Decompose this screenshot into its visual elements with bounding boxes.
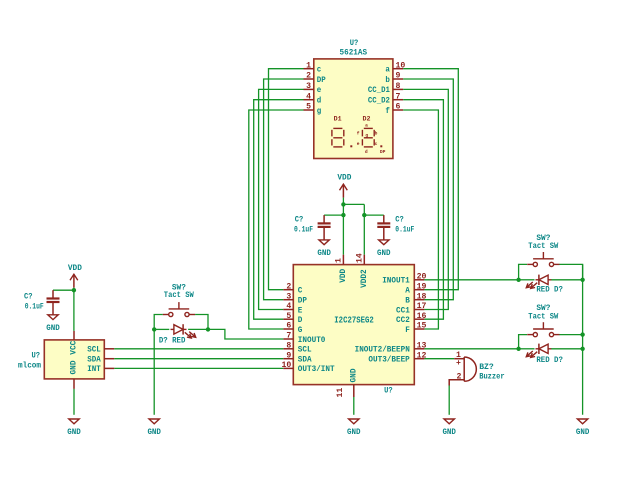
display pin 2 stub	[304, 78, 314, 80]
mlcom pin INT stub	[104, 367, 114, 369]
svg-text:GND: GND	[347, 427, 361, 437]
display pin 1 stub	[304, 68, 314, 70]
svg-text:SCL: SCL	[87, 345, 101, 355]
svg-text:16: 16	[417, 312, 427, 321]
wire SW3 left down	[519, 335, 527, 349]
IC pin 2 stub	[283, 289, 293, 291]
wire SW1 node down to ground	[153, 329, 155, 414]
svg-text:b: b	[385, 75, 390, 85]
svg-text:14: 14	[355, 253, 364, 263]
svg-text:6: 6	[286, 322, 291, 331]
svg-text:17: 17	[417, 302, 427, 311]
wire SW2 left down	[519, 264, 527, 279]
svg-text:VDD: VDD	[337, 173, 351, 183]
capacitor C2 plates	[323, 215, 325, 223]
svg-text:Tact SW: Tact SW	[164, 290, 195, 300]
svg-text:0.1uF: 0.1uF	[294, 224, 313, 234]
junction SW1 left node	[152, 327, 156, 331]
svg-text:7: 7	[396, 92, 401, 101]
junction VDD branch	[341, 202, 345, 206]
svg-text:15: 15	[417, 322, 427, 331]
wire IC pin 11 to ground	[353, 397, 355, 415]
wire display g to IC pin 6	[249, 110, 304, 329]
IC pin 1 stub	[342, 255, 344, 265]
svg-text:D1: D1	[334, 116, 342, 123]
wire SW1 left to LED node	[154, 315, 163, 330]
IC pin 18 stub	[414, 299, 424, 301]
svg-text:d: d	[365, 149, 368, 155]
wire node to LED D1 anode	[154, 328, 169, 330]
svg-text:CC_D2: CC_D2	[368, 96, 390, 106]
svg-text:f: f	[357, 131, 360, 137]
7-segment display U1 5621AS body	[314, 59, 393, 159]
svg-text:RED D?: RED D?	[536, 285, 563, 295]
svg-text:GND: GND	[348, 369, 358, 383]
ground right rail	[577, 419, 587, 424]
svg-text:7: 7	[286, 332, 291, 341]
junction cap C2 tap	[341, 213, 345, 217]
wire IC pin 20 INOUT1 to SW2 node	[424, 279, 518, 281]
IC pin 10 stub	[283, 367, 293, 369]
IC pin 17 stub	[414, 309, 424, 311]
tact switch SW2	[527, 252, 559, 267]
wire mlcom GND to ground	[73, 389, 75, 415]
IC pin 19 stub	[414, 289, 424, 291]
svg-text:INT: INT	[87, 364, 101, 374]
IC pin 4 stub	[283, 309, 293, 311]
display pin 8 stub	[393, 88, 403, 90]
wire SW1 right to LED node	[195, 315, 208, 330]
IC pin 9 stub	[283, 358, 293, 360]
svg-text:c: c	[375, 142, 378, 147]
wire VDD to mlcom VCC	[73, 288, 75, 331]
microcontroller U3 mlcom body	[44, 340, 104, 379]
IC pin 15 stub	[414, 328, 424, 330]
svg-text:f: f	[385, 106, 390, 116]
svg-text:SDA: SDA	[298, 355, 313, 365]
IC pin 13 stub	[414, 348, 424, 350]
svg-text:4: 4	[306, 92, 311, 101]
svg-text:GND: GND	[69, 361, 79, 375]
svg-text:a: a	[365, 124, 368, 129]
wire display c to IC pin 2	[269, 69, 304, 290]
svg-text:+: +	[456, 359, 461, 368]
svg-text:9: 9	[396, 72, 401, 81]
svg-text:D: D	[298, 315, 303, 325]
svg-text:SDA: SDA	[87, 355, 101, 365]
mlcom pin SDA stub	[104, 358, 114, 360]
svg-text:0.1uF: 0.1uF	[395, 224, 414, 234]
wire LED D3 anode to node	[551, 348, 582, 350]
ground under SW1	[149, 419, 159, 424]
wire SW2 right down	[559, 264, 582, 279]
svg-text:g: g	[365, 134, 368, 139]
svg-text:CC2: CC2	[396, 315, 410, 325]
svg-text:U?: U?	[384, 386, 393, 396]
wire buzzer to ground	[448, 386, 450, 415]
svg-text:D2: D2	[363, 116, 371, 123]
svg-text:4: 4	[286, 302, 291, 311]
svg-text:2: 2	[306, 72, 311, 81]
capacitor C3 plates	[383, 215, 385, 223]
svg-text:GND: GND	[377, 248, 391, 258]
mlcom pin SCL stub	[104, 348, 114, 350]
wire node to LED D3 cathode	[519, 348, 535, 350]
wire to capacitor C3	[364, 214, 384, 216]
svg-text:8: 8	[396, 82, 401, 91]
junction cap C3 tap	[362, 213, 366, 217]
svg-text:5: 5	[306, 103, 311, 112]
svg-text:5621AS: 5621AS	[340, 47, 368, 57]
wire to capacitor C2	[324, 214, 343, 216]
svg-text:DP: DP	[298, 296, 307, 306]
svg-text:8: 8	[286, 342, 291, 351]
IC U2 I2C27SEG2 body	[293, 265, 414, 385]
svg-text:D? RED: D? RED	[159, 336, 186, 346]
svg-text:0.1uF: 0.1uF	[25, 302, 44, 312]
svg-text:19: 19	[417, 282, 427, 291]
buzzer pin 2 stub	[449, 380, 464, 386]
junction SW3 left node	[516, 347, 520, 351]
svg-text:C?: C?	[295, 215, 304, 225]
VDD supply symbol left	[70, 274, 78, 280]
wire display f to IC pin 15	[403, 110, 438, 329]
svg-text:E: E	[298, 305, 303, 315]
junction SW2 right node	[580, 278, 584, 282]
svg-text:OUT3/BEEP: OUT3/BEEP	[368, 355, 409, 365]
svg-text:C: C	[298, 286, 303, 296]
ground under C3	[379, 240, 389, 245]
display digit D1 segments	[332, 128, 344, 147]
svg-text:I2C27SEG2: I2C27SEG2	[334, 314, 374, 325]
svg-text:11: 11	[336, 388, 345, 398]
svg-text:OUT3/INT: OUT3/INT	[298, 364, 335, 374]
capacitor C1 plates	[52, 290, 54, 298]
IC pin 6 stub	[283, 328, 293, 330]
display decimal point 2	[380, 145, 382, 147]
IC pin 16 stub	[414, 318, 424, 320]
svg-text:mlcom: mlcom	[18, 361, 41, 371]
svg-text:Buzzer: Buzzer	[479, 372, 505, 382]
svg-text:2: 2	[286, 282, 291, 291]
svg-text:GND: GND	[317, 248, 331, 258]
tact switch SW1	[163, 302, 195, 317]
ground under buzzer	[444, 419, 454, 424]
wire SDA net mlcom to IC	[114, 358, 283, 360]
wire SW1 node to IC INOUT0 pin 7	[208, 329, 283, 339]
ground under C2	[319, 240, 329, 245]
junction C1 tap	[72, 288, 76, 292]
svg-text:GND: GND	[442, 427, 456, 437]
junction SW2 left node	[516, 278, 520, 282]
IC pin 5 stub	[283, 318, 293, 320]
wire INT net mlcom to IC	[114, 367, 283, 369]
wire display CC_D2 to IC pin 16	[403, 100, 443, 320]
VDD supply symbol mid	[340, 184, 348, 190]
svg-text:Tact SW: Tact SW	[528, 241, 559, 251]
svg-text:INOUT1: INOUT1	[382, 276, 410, 286]
svg-text:1: 1	[334, 258, 343, 263]
IC pin 20 stub	[414, 279, 424, 281]
svg-text:DP: DP	[380, 149, 386, 155]
svg-text:INOUT0: INOUT0	[298, 335, 326, 345]
display pin 7 stub	[393, 99, 403, 101]
svg-text:d: d	[317, 96, 322, 106]
wire SW3 right to vertical	[559, 334, 582, 336]
svg-text:6: 6	[396, 103, 401, 112]
svg-text:DP: DP	[317, 75, 326, 85]
ground under mlcom	[69, 419, 79, 424]
svg-text:GND: GND	[147, 427, 161, 437]
svg-text:1: 1	[306, 61, 311, 70]
svg-text:U?: U?	[32, 351, 41, 361]
svg-text:A: A	[405, 286, 410, 296]
svg-text:Tact SW: Tact SW	[528, 311, 559, 321]
wire SCL net mlcom to IC	[114, 348, 283, 350]
svg-text:G: G	[298, 325, 303, 335]
svg-text:VDD2: VDD2	[359, 269, 369, 288]
svg-text:VDD: VDD	[338, 269, 348, 283]
display digit D2 segments	[362, 128, 374, 147]
svg-text:BZ?: BZ?	[479, 362, 494, 372]
LED D2 RED	[526, 275, 551, 289]
svg-text:e: e	[317, 85, 322, 95]
svg-text:9: 9	[286, 351, 291, 360]
display decimal point 1	[350, 145, 352, 147]
junction SW3 right lower node	[580, 347, 584, 351]
junction SW1 right node	[206, 327, 210, 331]
svg-text:3: 3	[306, 82, 311, 91]
wire display DP to IC pin 3	[264, 79, 304, 300]
svg-text:B: B	[405, 296, 410, 306]
svg-text:VCC: VCC	[69, 341, 79, 355]
IC pin 3 stub	[283, 299, 293, 301]
IC pin 14 stub	[363, 255, 365, 265]
wire LED D1 cathode to node	[188, 328, 208, 330]
wire VDD to IC pin 1	[342, 198, 344, 255]
LED D3 RED	[526, 344, 551, 358]
svg-text:a: a	[385, 65, 390, 75]
wire display CC_D1 to IC pin 17	[403, 89, 448, 309]
display pin 6 stub	[393, 109, 403, 111]
svg-text:g: g	[317, 106, 322, 116]
wire display b to IC pin 18	[403, 79, 453, 300]
IC pin 11 stub	[353, 385, 355, 397]
svg-text:C?: C?	[24, 292, 33, 302]
svg-text:VDD: VDD	[68, 263, 82, 273]
svg-text:e: e	[357, 142, 360, 147]
wire display a to IC pin 19	[403, 69, 458, 290]
svg-text:5: 5	[286, 312, 291, 321]
wire to capacitor C1	[53, 289, 74, 291]
wire down to IC pin 14	[363, 204, 365, 254]
svg-text:CC1: CC1	[396, 305, 410, 315]
wire VDD branch to pin 14	[343, 203, 364, 205]
junction SW3 right upper node	[580, 332, 584, 336]
display pin 9 stub	[393, 78, 403, 80]
mlcom GND pin stub	[73, 379, 75, 389]
ground under IC	[349, 419, 359, 424]
display pin 10 stub	[393, 68, 403, 70]
wire IC pin 13 to SW3 node	[424, 348, 518, 350]
svg-text:F: F	[405, 325, 410, 335]
svg-text:INOUT2/BEEPN: INOUT2/BEEPN	[355, 345, 410, 355]
svg-text:3: 3	[286, 292, 291, 301]
svg-text:GND: GND	[67, 427, 81, 437]
wire display e to IC pin 4	[259, 89, 304, 309]
svg-text:18: 18	[417, 292, 427, 301]
IC pin 12 stub	[414, 358, 424, 360]
wire LED D2 anode to node	[551, 279, 582, 281]
IC pin 7 stub	[283, 338, 293, 340]
ground under C1	[48, 315, 58, 320]
LED D1 RED	[171, 324, 196, 338]
display pin 3 stub	[304, 88, 314, 90]
wire right rail down to ground	[582, 264, 584, 414]
svg-text:C?: C?	[395, 215, 404, 225]
tact switch SW3	[527, 322, 559, 337]
IC pin 8 stub	[283, 348, 293, 350]
wire node to LED D2 cathode	[519, 279, 535, 281]
svg-text:b: b	[375, 131, 378, 137]
wire IC pin 12 to buzzer	[424, 358, 454, 360]
display pin 4 stub	[304, 99, 314, 101]
display pin 5 stub	[304, 109, 314, 111]
svg-text:GND: GND	[576, 427, 590, 437]
mlcom VCC pin stub	[73, 331, 75, 340]
wire display d to IC pin 5	[254, 100, 304, 320]
svg-text:SCL: SCL	[298, 345, 312, 355]
svg-text:RED D?: RED D?	[536, 355, 563, 365]
svg-text:c: c	[317, 65, 322, 75]
buzzer pin 1 stub	[454, 358, 464, 360]
svg-text:GND: GND	[46, 323, 60, 333]
svg-text:CC_D1: CC_D1	[368, 85, 390, 95]
